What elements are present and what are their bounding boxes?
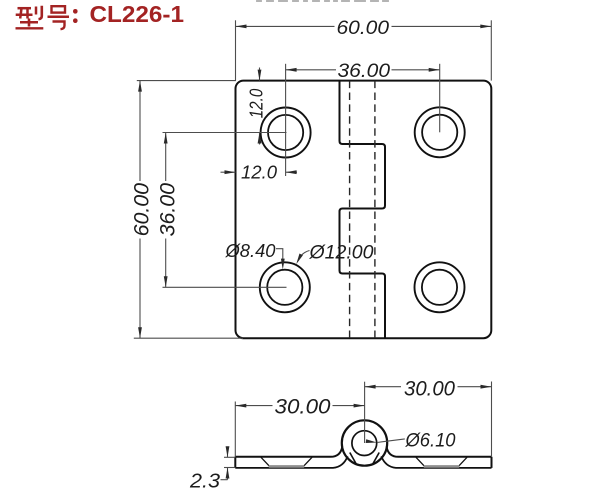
leader arrowhead 8.40 xyxy=(281,259,285,270)
hinge plate outline (top view) xyxy=(236,81,492,339)
screw hole top-right (outer countersink circle) xyxy=(415,107,465,157)
leaf right end edge xyxy=(491,457,493,468)
dimension 12.0 vertical: arrow lines outside xyxy=(259,68,261,145)
title fullwidth colon xyxy=(73,9,78,23)
dimension 30.00 left: extension line xyxy=(234,402,236,457)
title glyph XING (type) xyxy=(16,6,44,29)
leader line for pin hole 6.10 xyxy=(377,439,405,443)
dimension 30.00 left: dimension line xyxy=(235,405,364,407)
dimension 2.3: arrow lines outside xyxy=(221,447,228,480)
leaf bottom surface right with wrap xyxy=(381,456,491,468)
knuckle joint cut line xyxy=(340,81,386,339)
screw hole bottom-left (outer countersink circle) xyxy=(260,262,310,312)
svg-text:Ø6.10: Ø6.10 xyxy=(405,431,456,452)
dimension 36.00 left: arrowheads xyxy=(164,133,168,288)
barrel outer circle xyxy=(342,420,387,465)
dimension 30.00 right: arrowheads xyxy=(365,385,492,389)
countersink mark right leaf: bottom shading xyxy=(424,465,459,468)
cut-off text remnants top xyxy=(256,0,389,2)
dimension 36.00 left: extension lines xyxy=(163,133,287,288)
svg-text:30.00: 30.00 xyxy=(404,377,455,400)
dimension 30.00 right: dimension line xyxy=(365,386,492,388)
wrapped sheet end edge left xyxy=(350,453,357,465)
dimension 30.00 right: extension line xyxy=(491,382,493,457)
dimension 36.00 left: dimension line xyxy=(165,133,167,288)
svg-text:12.0: 12.0 xyxy=(246,88,267,118)
svg-text:30.00: 30.00 xyxy=(275,395,331,418)
screw hole top-right (inner bore circle) xyxy=(422,115,457,150)
dimension 36.00 top: arrowheads xyxy=(286,68,440,72)
dimension 60.00 left: arrowheads xyxy=(138,81,142,339)
svg-text:2.3: 2.3 xyxy=(189,471,220,493)
leaf left end edge xyxy=(234,457,236,468)
barrel vertical centerline xyxy=(364,382,366,443)
svg-text:Ø8.40: Ø8.40 xyxy=(225,240,277,261)
leaf top surface left xyxy=(235,447,342,457)
dimension 36.00 top: dimension line xyxy=(286,69,440,71)
svg-text:CL226-1: CL226-1 xyxy=(90,1,185,27)
screw hole bottom-right (outer countersink circle) xyxy=(415,262,465,312)
dimension 12.0 horizontal: arrowheads xyxy=(225,170,297,174)
leader line for 12.00 countersink xyxy=(299,251,310,260)
countersink mark right leaf: left flank xyxy=(416,457,425,466)
screw hole top-left (inner bore circle) xyxy=(268,115,303,150)
screw hole top-left (outer countersink circle) xyxy=(261,108,311,158)
hidden pin hole dashed line left xyxy=(349,81,351,339)
svg-text:12.0: 12.0 xyxy=(241,163,277,183)
dimension 60.00 top: dimension line xyxy=(236,25,492,27)
screw hole bottom-left (inner bore circle) xyxy=(267,270,302,305)
leader line for 8.40 bore xyxy=(276,249,283,260)
svg-text:60.00: 60.00 xyxy=(337,18,390,39)
dimension 2.3: extension lines xyxy=(224,457,235,467)
countersink mark left leaf: left flank xyxy=(261,457,270,466)
leader arrowhead 6.10 xyxy=(366,439,377,443)
dimension 60.00 top: extension lines xyxy=(236,20,492,80)
screw hole bottom-right (inner bore circle) xyxy=(422,270,457,305)
svg-text:36.00: 36.00 xyxy=(157,183,180,237)
hidden pin hole dashed line right xyxy=(374,81,376,339)
title glyph HAO (number) xyxy=(48,6,70,29)
svg-text:Ø12.00: Ø12.00 xyxy=(308,243,373,264)
dimension 2.3: arrowheads xyxy=(226,446,230,478)
countersink mark left leaf: bottom shading xyxy=(269,465,304,468)
leaf top surface right xyxy=(387,447,492,457)
dimension 60.00 top: arrowheads xyxy=(236,25,492,29)
countersink mark left leaf: right flank xyxy=(304,457,313,466)
dimension 12.0 vertical: arrowheads xyxy=(258,70,262,144)
wrapped sheet end edge right xyxy=(372,453,379,465)
leader arrowhead 12.00 xyxy=(296,254,303,265)
dimension 60.00 left: dimension line xyxy=(139,81,141,339)
dimension 12.0 horizontal: arrow lines outside xyxy=(221,171,298,173)
svg-text:60.00: 60.00 xyxy=(131,183,154,237)
dimension 60.00 left: extension lines xyxy=(134,81,243,339)
countersink mark right leaf: right flank xyxy=(459,457,468,466)
pin hole circle xyxy=(352,431,377,456)
dimension 36.00 top: extension lines xyxy=(286,64,440,176)
svg-text:36.00: 36.00 xyxy=(338,61,391,82)
dimension 30.00 left: arrowheads xyxy=(235,404,364,408)
leaf bottom surface left with wrap xyxy=(235,456,347,468)
